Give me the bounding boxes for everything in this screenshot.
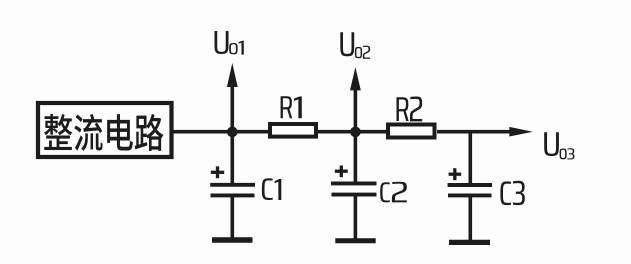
label C2	[380, 182, 407, 203]
arrowhead of U_o1	[227, 63, 238, 87]
arrow U_o2 shaft	[354, 89, 358, 132]
wire: C2 to ground	[354, 195, 358, 239]
wire: rectifier output to node A	[173, 130, 232, 134]
wire: node C down to C3	[468, 132, 472, 185]
rectifier box	[38, 103, 172, 157]
label C1	[262, 178, 281, 200]
node B junction dot	[350, 127, 361, 138]
wire: node B down to C2	[354, 132, 358, 183]
label 整流电路 (rectifier circuit)	[44, 114, 164, 151]
resistor R2	[388, 125, 435, 138]
label R1	[281, 96, 302, 118]
C2 polarity plus	[335, 166, 348, 178]
capacitor C2 plates	[331, 183, 377, 194]
wire: C1 to ground	[231, 195, 235, 238]
label C3	[500, 181, 524, 205]
capacitor C1 plates	[210, 185, 255, 196]
wire: node A to R1	[232, 130, 270, 134]
output arrowhead toward U_o3	[509, 127, 533, 137]
wire: R1 to node B	[318, 130, 356, 134]
arrowhead of U_o2	[350, 67, 361, 90]
label R2	[396, 96, 422, 121]
resistor R1	[270, 124, 316, 137]
wire: node A down to C1	[231, 132, 235, 184]
node A junction dot	[227, 127, 238, 138]
wire: node B to R2	[356, 130, 388, 134]
arrow U_o1 shaft	[231, 85, 235, 132]
ground bar below C2	[335, 238, 375, 243]
label U_o2	[340, 32, 370, 59]
wire: R2 to output arrowhead (through node C)	[437, 130, 513, 134]
label U_o3	[544, 132, 574, 159]
ground bar below C1	[212, 237, 253, 242]
C1 polarity plus	[211, 166, 224, 178]
ground bar below C3	[449, 240, 490, 245]
C3 polarity plus	[449, 168, 462, 180]
wire: C3 to ground	[468, 195, 472, 240]
label U_o1	[215, 31, 244, 55]
capacitor C3 plates	[448, 185, 492, 195]
